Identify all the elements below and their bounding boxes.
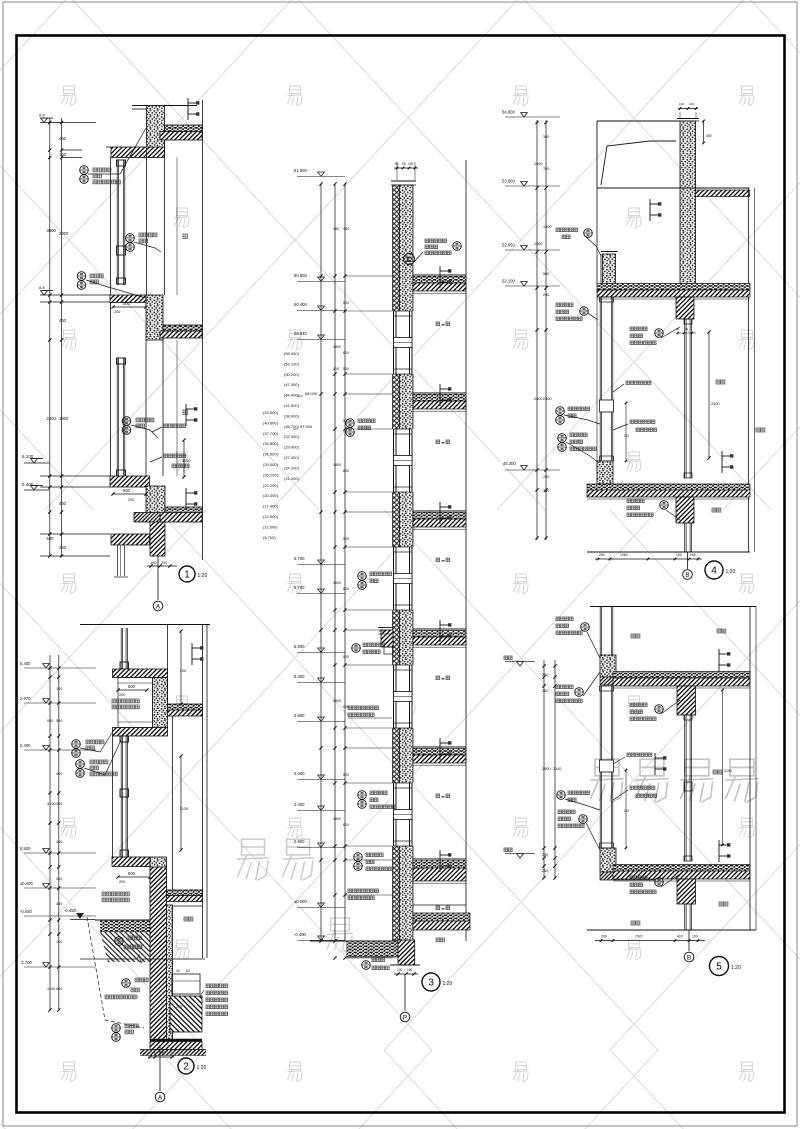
svg-text:500: 500 bbox=[343, 655, 349, 659]
d5 flags bbox=[718, 649, 720, 671]
svg-text:-0.450: -0.450 bbox=[64, 908, 77, 913]
d2 callout bottom bbox=[112, 1024, 121, 1033]
svg-text:58.000: 58.000 bbox=[305, 391, 318, 396]
d4 section line to grid B bbox=[687, 552, 689, 569]
d2 right slab hatch bbox=[168, 710, 203, 716]
d3 detail bubble 3 bbox=[422, 973, 440, 991]
svg-text:60.400: 60.400 bbox=[294, 302, 307, 307]
d1 window 2 bbox=[116, 358, 118, 477]
d1 left extension lines bbox=[40, 122, 96, 124]
svg-text:-0.450: -0.450 bbox=[20, 909, 33, 914]
svg-text:53.800: 53.800 bbox=[502, 179, 515, 184]
svg-text:(23.200): (23.200) bbox=[263, 483, 279, 488]
svg-text:500: 500 bbox=[123, 488, 131, 493]
svg-text:100: 100 bbox=[689, 102, 694, 106]
svg-text:900: 900 bbox=[47, 719, 53, 723]
svg-text:450: 450 bbox=[59, 318, 67, 323]
d1 under-sill hatch band bbox=[134, 513, 160, 523]
svg-text:3: 3 bbox=[428, 977, 434, 988]
d3 wall tag circle bbox=[404, 254, 415, 265]
svg-text:500: 500 bbox=[543, 272, 549, 276]
d5 bottom boundary line bbox=[587, 929, 756, 931]
d4 roof parapet block bbox=[680, 121, 696, 284]
d2 foundation hatch block bbox=[170, 996, 202, 1032]
d2 callout slope bbox=[115, 937, 124, 946]
svg-text:400: 400 bbox=[333, 367, 339, 371]
d3 right flags and room labels bbox=[439, 266, 441, 288]
d1 roof slab right hatch band bbox=[160, 132, 202, 141]
d2 right slab speckle bbox=[168, 704, 203, 710]
svg-text:3100: 3100 bbox=[47, 802, 55, 806]
d1 detail bubble 1 bbox=[179, 566, 195, 582]
svg-text:700: 700 bbox=[543, 167, 549, 171]
svg-text:(44.400): (44.400) bbox=[284, 393, 300, 398]
svg-text:5.400: 5.400 bbox=[22, 482, 34, 487]
d1 right flags bbox=[185, 404, 187, 426]
d2 ground soil wedge bbox=[100, 932, 152, 962]
svg-text:(8.700): (8.700) bbox=[263, 535, 276, 540]
watermark big text bottom-left bbox=[237, 839, 269, 880]
svg-text:(41.500): (41.500) bbox=[284, 403, 300, 408]
svg-text:(17.400): (17.400) bbox=[263, 504, 279, 509]
d5 callout left mid bbox=[556, 685, 573, 689]
svg-text:3000: 3000 bbox=[59, 231, 69, 236]
d1 wall outer face line lower bbox=[110, 303, 112, 477]
d1 elevation marker top bbox=[41, 118, 48, 122]
svg-text:6.700: 6.700 bbox=[294, 556, 305, 561]
svg-text:350: 350 bbox=[543, 489, 549, 493]
d4 callout center top bbox=[630, 327, 647, 331]
d4 callout sill bbox=[558, 434, 567, 443]
d1 window 1 bbox=[116, 160, 118, 285]
d4 callout parapet bbox=[556, 228, 578, 232]
d3 top right callout bbox=[425, 239, 447, 243]
d5 left railing bbox=[599, 686, 601, 848]
d4 detail bubble 4 bbox=[705, 561, 723, 579]
d5 left dim lines bbox=[543, 660, 545, 878]
d1 callout lower-left bbox=[77, 272, 86, 281]
svg-text:1800: 1800 bbox=[333, 581, 341, 585]
d3 fire barrier texts bbox=[348, 706, 379, 710]
d5 left elevation markers bbox=[517, 662, 524, 666]
d1 sill 1 hatch band bbox=[110, 295, 147, 303]
svg-text:700: 700 bbox=[180, 668, 187, 673]
svg-text:1100: 1100 bbox=[180, 806, 189, 811]
svg-text:(40.600): (40.600) bbox=[263, 420, 279, 425]
d3 wall footing bottom bbox=[390, 964, 420, 966]
svg-text:250: 250 bbox=[542, 673, 548, 677]
svg-text:B: B bbox=[685, 572, 689, 579]
svg-text:500: 500 bbox=[343, 773, 349, 777]
svg-text:1100: 1100 bbox=[182, 458, 191, 463]
d1 sill block floor2 bbox=[146, 295, 163, 340]
svg-text:(35.700): (35.700) bbox=[284, 424, 300, 429]
svg-text:600: 600 bbox=[56, 987, 62, 991]
d1 grid circle A bbox=[153, 601, 163, 611]
svg-text:1800: 1800 bbox=[333, 463, 341, 467]
d3 floor callouts left bbox=[346, 419, 355, 428]
d4 interior left face line bbox=[596, 188, 598, 284]
d2 section line to grid A bbox=[159, 1045, 161, 1091]
d2 bottom slab hatch bbox=[150, 1042, 202, 1050]
svg-text:200: 200 bbox=[119, 880, 125, 884]
svg-text:8.8: 8.8 bbox=[39, 113, 45, 118]
svg-text:450: 450 bbox=[56, 840, 62, 844]
svg-text:500: 500 bbox=[343, 301, 349, 305]
d4 roof outline bbox=[597, 120, 680, 122]
svg-text:52.050: 52.050 bbox=[502, 243, 515, 248]
svg-text:1500: 1500 bbox=[534, 242, 542, 246]
svg-text:2400: 2400 bbox=[711, 402, 719, 406]
d3 ground callout bbox=[362, 961, 371, 970]
d1 callout window2 bbox=[122, 417, 131, 426]
d2 upper window bbox=[120, 628, 122, 669]
d2 callout A upper bbox=[72, 740, 81, 749]
svg-text:1060: 1060 bbox=[620, 553, 628, 557]
svg-text:450: 450 bbox=[59, 136, 67, 141]
d4 handrail texts bbox=[626, 381, 651, 384]
d1 room label bbox=[183, 234, 188, 239]
svg-text:400: 400 bbox=[677, 935, 683, 939]
svg-text:52.100: 52.100 bbox=[502, 279, 515, 284]
d3 grid circle P bbox=[400, 1012, 410, 1022]
svg-text:450: 450 bbox=[59, 545, 67, 550]
svg-text:250: 250 bbox=[543, 293, 549, 297]
d1 wall below floor2 bbox=[150, 522, 165, 556]
d4 right verticals bbox=[748, 188, 750, 552]
svg-text:46.300: 46.300 bbox=[503, 461, 516, 466]
d1 texts right of window2 bbox=[164, 424, 186, 428]
svg-text:(21.200): (21.200) bbox=[284, 476, 300, 481]
d1 roof slab right speckle band bbox=[165, 125, 203, 132]
d4 main slab bbox=[597, 284, 750, 291]
svg-text:(43.500): (43.500) bbox=[263, 410, 279, 415]
svg-text:450: 450 bbox=[59, 501, 67, 506]
svg-text:200: 200 bbox=[128, 498, 134, 502]
d5 room labels bbox=[717, 629, 726, 633]
d2 ground surface granular strip bbox=[100, 920, 152, 932]
d4 bottom slab bbox=[587, 484, 750, 490]
d5 callout insulation bbox=[557, 791, 566, 800]
d2 dim 1100 vertical bbox=[180, 756, 182, 850]
svg-text:58.940: 58.940 bbox=[294, 331, 307, 336]
d3 floor slabs bbox=[413, 276, 466, 283]
svg-text:100: 100 bbox=[397, 968, 403, 972]
svg-text:(34.800): (34.800) bbox=[263, 441, 279, 446]
d2 callout manhole bbox=[122, 979, 131, 988]
svg-text:5.400: 5.400 bbox=[20, 661, 31, 666]
d5 callout beam2 bbox=[630, 876, 647, 880]
watermark yi glyph lattice bbox=[61, 86, 76, 106]
d5 sill hatch band 2 bbox=[600, 872, 655, 880]
watermark big text center-right bbox=[590, 759, 623, 802]
d1 bottom slab right speckle bbox=[165, 507, 202, 513]
d2 basement wall speckle strip bbox=[167, 905, 173, 1040]
svg-text:(14.500): (14.500) bbox=[263, 514, 279, 519]
d2 bottom ground hatch bbox=[140, 1050, 206, 1056]
svg-text:(50.200): (50.200) bbox=[284, 372, 300, 377]
svg-text:3150: 3150 bbox=[724, 769, 732, 773]
d4 parapet right dim 300 bbox=[703, 121, 705, 143]
svg-text:2900: 2900 bbox=[542, 767, 550, 771]
svg-text:600: 600 bbox=[343, 587, 349, 591]
svg-text:200: 200 bbox=[119, 693, 125, 697]
d1 bottom dim row bbox=[147, 565, 177, 567]
svg-text:1100: 1100 bbox=[47, 987, 55, 991]
d3 ground granular strip bbox=[346, 941, 398, 957]
svg-text:(29.900): (29.900) bbox=[284, 445, 300, 450]
svg-text:450: 450 bbox=[56, 902, 62, 906]
svg-text:(29.000): (29.000) bbox=[263, 462, 279, 467]
d1 balcony floor hatch band bbox=[111, 147, 165, 158]
d2 window head block top hatch bbox=[113, 669, 168, 678]
svg-text:(37.700): (37.700) bbox=[263, 431, 279, 436]
svg-text:500: 500 bbox=[56, 719, 62, 723]
svg-text:A: A bbox=[158, 1094, 163, 1101]
d2 sill2 hatch band bbox=[112, 857, 150, 867]
svg-text:230: 230 bbox=[379, 629, 385, 633]
svg-text:250: 250 bbox=[542, 689, 548, 693]
svg-text:500: 500 bbox=[128, 871, 136, 876]
d4 beam below slab bbox=[676, 297, 694, 319]
d2 callout B upper bbox=[76, 760, 85, 769]
svg-text:160: 160 bbox=[690, 553, 696, 557]
d3 section line to grid P bbox=[404, 976, 406, 1011]
svg-text:8.8: 8.8 bbox=[39, 285, 45, 290]
d2 foundation upper block bbox=[172, 974, 200, 994]
svg-text:P: P bbox=[403, 1014, 407, 1021]
d1 elevation marker 6.100 bbox=[31, 459, 38, 463]
svg-text:#2: #2 bbox=[186, 969, 190, 973]
svg-text:500: 500 bbox=[343, 537, 349, 541]
svg-text:81.500: 81.500 bbox=[294, 168, 307, 173]
svg-text:240: 240 bbox=[176, 1005, 182, 1009]
svg-text:600: 600 bbox=[343, 469, 349, 473]
d4 bottom left sill block bbox=[597, 461, 613, 484]
d1 top right flags bbox=[187, 98, 189, 120]
d3 bottom dim bbox=[394, 973, 418, 975]
svg-text:1800: 1800 bbox=[333, 699, 341, 703]
d3 ground interior slabs right bbox=[413, 913, 470, 921]
d5 handrail texts bbox=[627, 753, 652, 756]
d4 callout bottom center bbox=[627, 499, 644, 503]
d1 vertical dim 1100 bbox=[183, 440, 185, 477]
d2 interior label bbox=[184, 917, 193, 921]
d1 wall outer face line upper bbox=[110, 158, 112, 296]
d4 window below beam bbox=[684, 523, 686, 552]
svg-text:1000: 1000 bbox=[534, 162, 542, 166]
d4 left dim lines bbox=[536, 120, 538, 540]
svg-text:110: 110 bbox=[624, 809, 629, 813]
d4 bottom boundary line bbox=[587, 551, 750, 553]
d3 right grid line bbox=[465, 160, 467, 941]
svg-text:2.970: 2.970 bbox=[20, 696, 31, 701]
svg-text:200: 200 bbox=[601, 935, 607, 939]
d5 window below beam 2 bbox=[684, 904, 686, 930]
d1 parapet wall block bbox=[147, 106, 165, 149]
svg-text:100: 100 bbox=[56, 940, 62, 944]
d5 detail bubble 5 bbox=[710, 957, 729, 976]
svg-text:450: 450 bbox=[343, 227, 349, 231]
d3 balcony step at slab4 bbox=[381, 630, 393, 647]
d5 callout sill1 bbox=[556, 617, 573, 621]
svg-text:7020: 7020 bbox=[635, 935, 643, 939]
d5 center window bbox=[684, 715, 686, 861]
svg-text:54.800: 54.800 bbox=[502, 110, 515, 115]
d3 wall window openings bbox=[392, 311, 414, 374]
d5 bottom dim row bbox=[595, 940, 705, 942]
svg-text:2.400: 2.400 bbox=[294, 802, 305, 807]
d1 callout mid bbox=[126, 234, 135, 243]
d1 wall edge lines under parapet bbox=[146, 148, 148, 295]
svg-text:3600: 3600 bbox=[47, 228, 57, 233]
svg-text:100: 100 bbox=[679, 102, 684, 106]
svg-text:2: 2 bbox=[183, 1061, 189, 1072]
svg-text:300: 300 bbox=[706, 134, 712, 138]
d3 intermediate extension lines to wall bbox=[345, 275, 393, 277]
d2 right verticals bbox=[167, 625, 169, 705]
d3 main wall continuous bands bbox=[393, 185, 400, 940]
d4 center window bbox=[684, 319, 686, 478]
d2 window head block right speckle bbox=[153, 678, 168, 728]
svg-text:2.400: 2.400 bbox=[20, 743, 31, 748]
svg-text:9.700: 9.700 bbox=[294, 585, 305, 590]
d1 sill2 dim 500 bbox=[113, 493, 146, 495]
d2 annotation texts upper bbox=[112, 699, 139, 703]
svg-text:1: 1 bbox=[184, 569, 190, 580]
d3 left extension lines bbox=[297, 175, 345, 177]
svg-text:300: 300 bbox=[543, 135, 549, 139]
d3 wall footing bbox=[398, 940, 415, 965]
d5 beam 2 bbox=[677, 879, 696, 904]
d2 right annotation texts bbox=[206, 984, 228, 988]
svg-text:5.300: 5.300 bbox=[294, 674, 305, 679]
d2 grid circle A bbox=[155, 1092, 165, 1102]
d2 excavation dashed outline bbox=[87, 917, 144, 1028]
svg-text:500: 500 bbox=[123, 301, 131, 306]
d2 basement wall hatch bbox=[150, 867, 167, 1040]
svg-text:2600: 2600 bbox=[534, 397, 542, 401]
svg-text:(11.600): (11.600) bbox=[263, 524, 278, 529]
svg-text:3140: 3140 bbox=[553, 767, 561, 771]
d4 flags bbox=[649, 199, 651, 221]
svg-text:0.500: 0.500 bbox=[20, 846, 31, 851]
svg-text:500: 500 bbox=[128, 684, 136, 689]
d4 sill hatch band bbox=[600, 484, 655, 491]
svg-text:30: 30 bbox=[685, 327, 689, 331]
d5 callout sill2 bbox=[558, 810, 575, 814]
d1 top cap line bbox=[132, 105, 197, 107]
d3 parapet top dim bbox=[394, 167, 418, 169]
svg-text:250: 250 bbox=[542, 853, 548, 857]
svg-text:400: 400 bbox=[56, 772, 62, 776]
d5 callout beam1 bbox=[630, 703, 647, 707]
svg-text:(58.000): (58.000) bbox=[284, 351, 300, 356]
d2 annotation texts lower bbox=[102, 892, 129, 896]
svg-text:400: 400 bbox=[56, 877, 62, 881]
d2 detail bubble 2 bbox=[178, 1058, 194, 1074]
d2 sill2 speckle block bbox=[150, 857, 167, 905]
d1 right grid line bbox=[202, 100, 204, 560]
d4 left window railing bbox=[599, 297, 601, 461]
d1 lower-left ceiling hatch band bbox=[111, 534, 150, 545]
svg-text:600: 600 bbox=[343, 351, 349, 355]
svg-text:1:20: 1:20 bbox=[197, 1065, 207, 1071]
svg-text:290: 290 bbox=[161, 561, 167, 565]
svg-text:450: 450 bbox=[333, 227, 339, 231]
d4 beam below bottom slab bbox=[676, 497, 694, 523]
svg-text:1300: 1300 bbox=[543, 225, 551, 229]
svg-text:(31.900): (31.900) bbox=[263, 452, 279, 457]
d4 handrail vertical dim bbox=[625, 403, 627, 461]
d5 handrail vertical dim bbox=[625, 770, 627, 848]
d5 sill block 2 bbox=[600, 848, 616, 872]
d4 bottom dim row bbox=[595, 558, 702, 560]
svg-text:(27.000): (27.000) bbox=[284, 455, 300, 460]
svg-text:(32.900): (32.900) bbox=[284, 434, 300, 439]
svg-text:±0.000: ±0.000 bbox=[294, 899, 307, 904]
d2 top boundary line bbox=[80, 624, 210, 626]
svg-text:(24.100): (24.100) bbox=[284, 465, 300, 470]
svg-text:(47.300): (47.300) bbox=[284, 382, 300, 387]
svg-text:500: 500 bbox=[343, 367, 349, 371]
svg-text:B: B bbox=[687, 954, 691, 961]
d1 sill 1 dim 500 bbox=[113, 306, 146, 308]
svg-text:600: 600 bbox=[343, 823, 349, 827]
d5 grid circle B bbox=[684, 952, 694, 962]
svg-text:500: 500 bbox=[47, 536, 55, 541]
svg-text:2400: 2400 bbox=[543, 397, 551, 401]
d1 sill block bottom bbox=[146, 486, 165, 522]
d1 wall stub below floor bbox=[117, 545, 119, 576]
svg-text:140: 140 bbox=[408, 162, 414, 166]
d3 waterproof texts bbox=[348, 889, 379, 893]
d4 balcony parapet bbox=[601, 251, 618, 253]
d3 left dim lines bbox=[320, 184, 322, 940]
svg-text:(53.100): (53.100) bbox=[284, 361, 300, 366]
svg-text:05: 05 bbox=[402, 162, 406, 166]
svg-text:(20.300): (20.300) bbox=[263, 493, 279, 498]
svg-text:1800: 1800 bbox=[59, 416, 69, 421]
d1 floor2 slab speckle bbox=[163, 325, 202, 331]
d4 right vertical dim 2400 bbox=[708, 332, 710, 458]
d5 slab 1 bbox=[613, 672, 750, 679]
d2 window recess inner lines bbox=[118, 678, 153, 728]
d5 top boundary line bbox=[590, 606, 756, 608]
svg-text:57.500: 57.500 bbox=[300, 424, 313, 429]
d2 bottom slab thick line bbox=[150, 1039, 202, 1041]
d1 bottom slab right hatch bbox=[160, 513, 202, 523]
d4 room labels bbox=[716, 380, 725, 384]
d2 left extension lines bbox=[24, 667, 96, 669]
svg-text:150: 150 bbox=[59, 152, 67, 157]
svg-text:A: A bbox=[156, 603, 161, 610]
svg-text:6.100: 6.100 bbox=[22, 454, 34, 459]
svg-text:-0.490: -0.490 bbox=[294, 932, 307, 937]
d5 left window top bbox=[599, 607, 601, 656]
svg-text:1800: 1800 bbox=[333, 345, 341, 349]
svg-text:2.000: 2.000 bbox=[294, 771, 305, 776]
svg-text:100: 100 bbox=[56, 687, 62, 691]
d4 callout insulation mid bbox=[556, 407, 565, 416]
svg-text:1:20: 1:20 bbox=[726, 569, 736, 575]
svg-text:5.800: 5.800 bbox=[294, 644, 305, 649]
svg-text:1:20: 1:20 bbox=[731, 965, 741, 971]
d5 section line to grid B bbox=[688, 930, 690, 951]
svg-text:110: 110 bbox=[624, 434, 629, 438]
d5 sill block 1 bbox=[600, 655, 616, 677]
svg-text:10: 10 bbox=[151, 1051, 155, 1055]
